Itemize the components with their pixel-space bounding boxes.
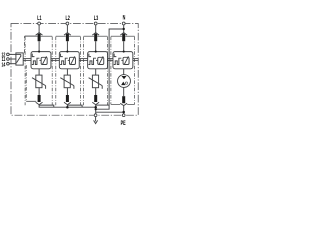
module M2 dash-dot enclosure — [56, 36, 81, 105]
wire: L3 column down to earth terminal — [95, 105, 97, 114]
svg-text:PE: PE — [121, 120, 126, 127]
wire: box3 to varistor RV3 — [95, 69, 97, 75]
junction dot N drop — [123, 28, 125, 30]
wire: F3 to box3 — [95, 41, 97, 51]
wire: RV1 to F1b — [38, 88, 40, 95]
wire: module2 output step — [68, 105, 83, 107]
terminal L1 — [38, 22, 41, 25]
wire 12 — [9, 53, 21, 55]
wire: N to left element (109.1) down to join L3 column — [96, 29, 124, 109]
wire: bus to PE node — [96, 111, 124, 113]
svg-text:14: 14 — [1, 61, 5, 68]
wire: GDT to F4b — [123, 87, 125, 96]
earthing arrow — [94, 117, 98, 124]
junction dot PE node — [122, 111, 125, 114]
remote signalling contact block — [7, 53, 24, 65]
wire: F4 to box4 — [123, 41, 125, 51]
spark-gap unit U1 (rounded box with surge-wave + varistor icons) — [31, 51, 51, 69]
wire: L3 drop — [95, 25, 97, 34]
disconnector F2 bottom — [64, 95, 71, 105]
module M4 dash-dot enclosure — [111, 36, 135, 104]
disconnector F4 top — [120, 33, 127, 42]
svg-text:L1: L1 — [37, 15, 41, 22]
terminal equipotential bonding — [94, 114, 97, 117]
wire: L2 drop — [66, 25, 68, 34]
wire: box2 to varistor RV2 — [66, 69, 68, 75]
disconnector F1 top (arrow up + body) — [36, 33, 43, 42]
spark-gap unit U3 (rounded box with surge-wave + varistor icons) — [88, 51, 108, 69]
varistor RV1 — [32, 75, 46, 89]
wire: box4 to gas discharge tube — [123, 69, 125, 75]
wire: phase collection bus — [39, 105, 96, 108]
module M1 dash-dot enclosure — [25, 36, 52, 105]
junction dot branch3/bus — [94, 106, 97, 109]
disconnector F3 bottom — [92, 95, 99, 105]
disconnector F4 bottom — [120, 96, 127, 105]
terminal 11 circle — [7, 58, 10, 61]
wire: module3 output step — [96, 104, 109, 106]
terminal 14 circle — [7, 62, 10, 65]
spark-gap unit U2 (rounded box with surge-wave + varistor icons) — [59, 51, 79, 69]
linkage contact to F1 top — [24, 36, 26, 53]
svg-text:N: N — [123, 15, 126, 22]
inter-module bus links (double lines) — [23, 59, 138, 61]
wire: RV3 to F3b — [95, 88, 97, 95]
wire 14 — [9, 63, 16, 65]
terminal L3 — [94, 22, 97, 25]
junction dot N-wire/branch3 — [95, 108, 97, 110]
wire: N drop — [123, 25, 125, 34]
contact blade — [17, 56, 22, 63]
varistor RV2 — [60, 75, 74, 89]
disconnector F1 bottom (body + arrow down) — [36, 95, 43, 105]
device outline dash-dot border — [11, 24, 138, 116]
wire: RV2 to F2b — [66, 88, 68, 95]
wire 11 — [9, 58, 16, 60]
terminal 12 circle — [7, 53, 10, 56]
wire: L1 drop — [38, 25, 40, 34]
spark-gap unit U4 (rounded box with surge-wave + varistor icons) — [113, 51, 133, 69]
wire: module1 output step — [39, 105, 54, 107]
wire: N-PE gap down to PE terminal — [123, 106, 125, 114]
disconnector F3 top — [92, 33, 99, 42]
wire: branch2 stub — [66, 105, 68, 108]
terminal N — [122, 22, 125, 25]
varistor RV3 — [89, 75, 103, 89]
junction dot branch2/bus — [66, 106, 69, 109]
wire: box1 to varistor RV1 — [38, 69, 40, 75]
linkage contact to F1 bottom — [25, 65, 27, 101]
terminal PE — [122, 114, 125, 117]
terminal L2 — [66, 22, 69, 25]
module M3 dash-dot enclosure — [84, 36, 108, 105]
svg-text:L2: L2 — [65, 15, 69, 22]
gas discharge tube GDT (N-PE spark gap) — [118, 75, 131, 88]
svg-text:L3: L3 — [94, 15, 98, 22]
wire: F1 to box1 — [38, 41, 40, 51]
wire: F2 to box2 — [66, 41, 68, 51]
contact box S1 — [16, 53, 23, 65]
disconnector F2 top — [64, 33, 71, 42]
